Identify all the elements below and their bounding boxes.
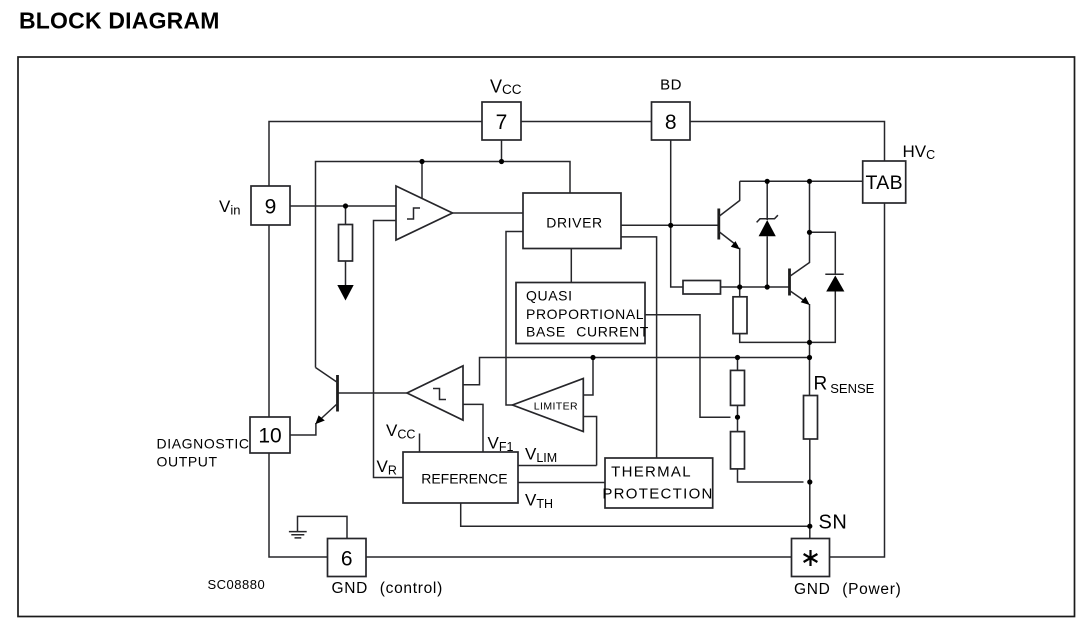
svg-text:6: 6 [341, 548, 353, 571]
svg-text:DRIVER: DRIVER [546, 215, 603, 231]
wire Vth output to SN node [461, 503, 810, 526]
node pin7 on Vcc rail [499, 159, 504, 164]
wire Vcc internal rail y=161.5 [316, 162, 571, 368]
wire Q2 collector branch and D2 branch [810, 181, 836, 274]
node LIMITER pin on sense line [590, 355, 595, 360]
block LIMITER [513, 379, 584, 432]
node R4 on sense line [735, 355, 740, 360]
wire DRIVER output to Q1 base [621, 224, 719, 226]
block THERMAL PROTECTION [602, 458, 713, 508]
svg-text:BLOCK DIAGRAM: BLOCK DIAGRAM [19, 8, 220, 34]
svg-text:BD: BD [660, 77, 682, 94]
node comparator top on Vcc rail [419, 159, 424, 164]
wire left rail pin9 to pin10 to pin6 [269, 225, 328, 557]
node Q2 branch on collector rail [807, 179, 812, 184]
wire pin7 stub [501, 140, 503, 162]
svg-text:DIAGNOSTIC: DIAGNOSTIC [157, 436, 250, 452]
wire pin8 stub down to R2 [671, 140, 683, 287]
node D1 on collector rail [765, 179, 770, 184]
transistor Q2 darlington output [790, 263, 810, 306]
block DRIVER [523, 193, 621, 249]
wire pin6 to GND power pin [366, 556, 792, 558]
block QUASI PROPORTIONAL BASE CURRENT [516, 283, 649, 344]
node Q2 emitter rail [807, 340, 812, 345]
pin 9 [251, 186, 290, 225]
wire DRIVER bottom stub to QUASI [570, 249, 572, 283]
svg-text:8: 8 [665, 111, 677, 134]
node R5 on Rsense rail [807, 479, 812, 484]
svg-text:GND (Power): GND (Power) [794, 581, 901, 598]
wire R3 bottom rail y=342.4 [740, 334, 810, 343]
wire LIMITER upper pin [583, 358, 593, 396]
node Q1 emitter on base wire [737, 284, 742, 289]
node D1 anode on base wire [765, 284, 770, 289]
pin 7 [482, 102, 521, 140]
pin 8 [652, 102, 691, 140]
diode D2 [825, 274, 844, 291]
wire comparator U2 output to Q3 base [338, 392, 408, 394]
svg-text:REFERENCE: REFERENCE [421, 471, 507, 487]
wire top rail Vcc/BD y=121.5 [269, 122, 885, 187]
wire comparator U1 output to DRIVER [453, 212, 524, 214]
node R1 on Vin wire [343, 203, 348, 208]
resistor Rsense [804, 396, 818, 440]
resistor R5 [731, 432, 745, 469]
wire Vcc stub into REFERENCE [419, 434, 421, 453]
op-amp U2 comparator inverted hysteresis [407, 366, 463, 420]
svg-text:PROPORTIONAL: PROPORTIONAL [526, 306, 644, 322]
node driver out / pin8 rail [668, 223, 673, 228]
wire Q3 emitter to pin10 [290, 423, 316, 435]
svg-text:BASE CURRENT: BASE CURRENT [526, 324, 649, 340]
node sense line end [807, 355, 812, 360]
pin TAB [863, 161, 906, 203]
wire collector rail y=181.3 to TAB [740, 180, 863, 182]
transistor Q3 diagnostic [315, 368, 337, 425]
wire comparator U1 lower input to Vr node [374, 221, 404, 478]
transistor Q1 darlington input [719, 181, 740, 287]
resistor R4 [731, 370, 745, 405]
svg-text:7: 7 [496, 111, 508, 134]
resistor R2 base series horizontal [683, 281, 721, 295]
zener diode D1 [757, 181, 778, 287]
wire comparator U2 lower input Vf1 stub [463, 404, 483, 452]
node SN [807, 524, 812, 529]
wire GND power pin to TAB rail [830, 203, 885, 557]
pin 10 [250, 417, 290, 453]
svg-text:QUASI: QUASI [526, 288, 573, 304]
svg-text:PROTECTION: PROTECTION [602, 486, 713, 503]
wire ground symbol to pin6 [298, 516, 348, 538]
wire pin9 to comparator U1 input [290, 205, 396, 207]
wire comparator U1 top stub [421, 162, 423, 199]
wire sense line y=357.5 [463, 358, 810, 385]
wire Q2 emitter down to Rsense [809, 304, 811, 396]
arrow to substrate below R1 [337, 285, 353, 301]
svg-text:TAB: TAB [866, 172, 903, 194]
node D2 branch on Q2 collector [807, 230, 812, 235]
node R4/R5 quasi output [735, 415, 740, 420]
svg-text:9: 9 [265, 196, 277, 219]
wire Vlim output from REFERENCE [518, 465, 597, 467]
pin * GND power [792, 539, 830, 577]
svg-text:GND (control): GND (control) [332, 580, 443, 597]
block REFERENCE [403, 452, 518, 503]
wire QUASI output to R4/R5 node [645, 315, 731, 417]
resistor R1 pulldown at Vin [339, 206, 353, 286]
wire REFERENCE to THERMAL PROTECTION [518, 482, 606, 484]
wire R4 stubs [737, 358, 739, 432]
wire Rsense down to GND power pin [809, 439, 811, 539]
wire LIMITER lower pin to Vlim [583, 417, 596, 466]
ground [289, 532, 307, 538]
svg-text:OUTPUT: OUTPUT [157, 454, 218, 470]
pin 6 [328, 539, 367, 577]
svg-text:10: 10 [258, 425, 281, 448]
wire D2 anode down to emitter rail [810, 291, 836, 342]
op-amp U1 comparator with hysteresis [396, 186, 453, 240]
wire DRIVER left stub to LIMITER apex [506, 232, 523, 406]
resistor R3 [733, 287, 747, 334]
wire R2 to Q2 base [721, 286, 790, 288]
svg-text:SC08880: SC08880 [208, 577, 266, 592]
svg-text:THERMAL: THERMAL [611, 464, 692, 481]
svg-text:SN: SN [819, 512, 848, 534]
svg-text:LIMITER: LIMITER [534, 401, 578, 413]
wire R5 bottom to Rsense rail [738, 469, 804, 482]
wire DRIVER output2 to THERMAL PROTECTION [621, 237, 657, 458]
